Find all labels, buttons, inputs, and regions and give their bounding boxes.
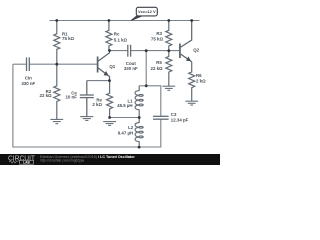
svg-text:9.47 µH: 9.47 µH — [118, 130, 133, 135]
svg-text:Vcc=12 V: Vcc=12 V — [138, 9, 156, 14]
svg-text:330 nF: 330 nF — [21, 81, 35, 86]
svg-text:75 kΩ: 75 kΩ — [62, 36, 75, 41]
svg-text:Rc: Rc — [114, 32, 120, 37]
svg-text:http://circuitlab.com/cmg62jqw: http://circuitlab.com/cmg62jqw — [40, 159, 85, 163]
svg-text:R5: R5 — [156, 60, 162, 65]
svg-text:C3: C3 — [171, 112, 177, 117]
svg-text:2 kΩ: 2 kΩ — [196, 78, 206, 83]
svg-text:75 kΩ: 75 kΩ — [151, 37, 164, 42]
svg-text:CIRCUIT: CIRCUIT — [8, 155, 36, 162]
svg-text:2 kΩ: 2 kΩ — [92, 102, 102, 107]
svg-text:R3: R3 — [156, 31, 162, 36]
svg-text:Q2: Q2 — [193, 48, 199, 53]
svg-text:LAB: LAB — [23, 160, 30, 164]
svg-text:22 kΩ: 22 kΩ — [151, 66, 164, 71]
svg-text:12.34 pF: 12.34 pF — [171, 118, 189, 123]
svg-text:330 nF: 330 nF — [124, 66, 138, 71]
svg-text:10 nF: 10 nF — [65, 95, 77, 100]
svg-text:Cin: Cin — [25, 75, 32, 80]
svg-text:L2: L2 — [128, 125, 134, 130]
svg-text:5.1 kΩ: 5.1 kΩ — [114, 37, 128, 42]
svg-text:Q1: Q1 — [109, 64, 115, 69]
svg-text:22 kΩ: 22 kΩ — [40, 93, 53, 98]
svg-text:45.5 µH: 45.5 µH — [117, 103, 132, 108]
